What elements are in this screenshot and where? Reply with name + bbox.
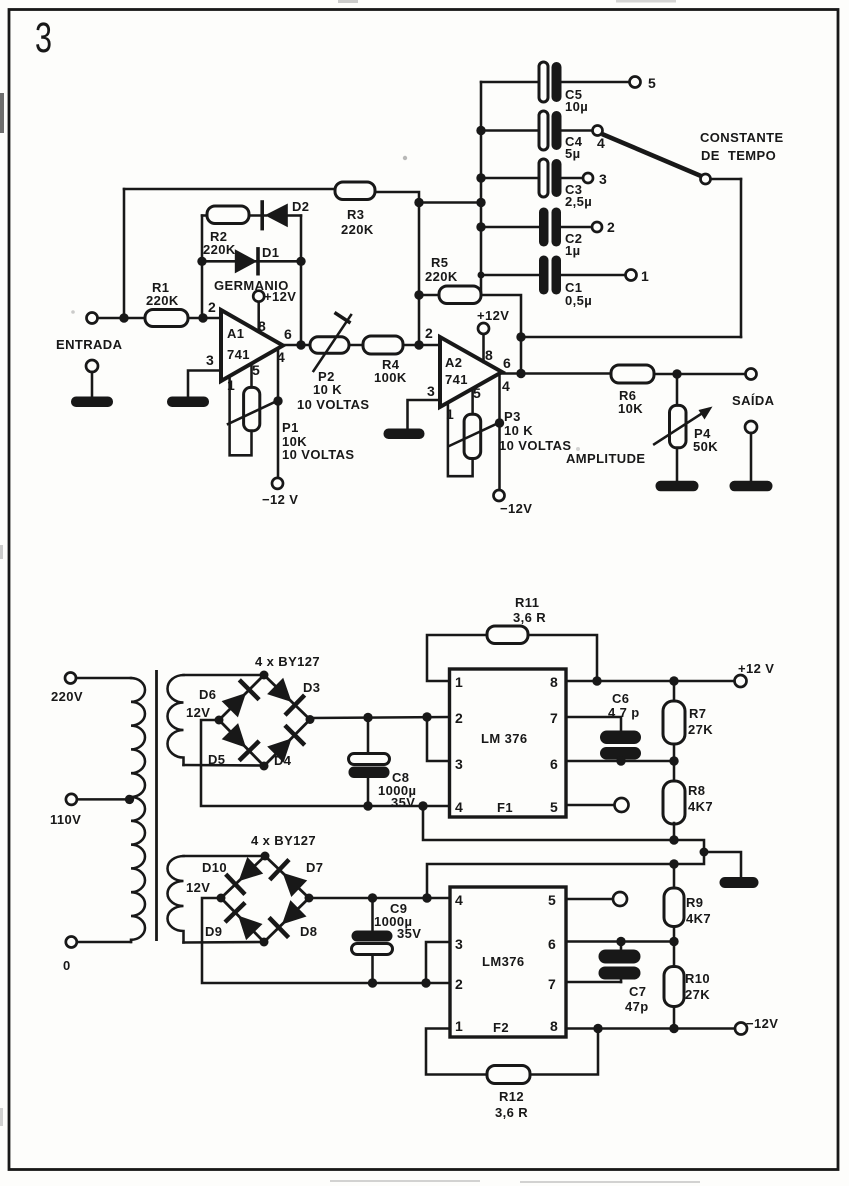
resistor R9 <box>673 864 676 889</box>
node C8 top <box>363 713 372 722</box>
wire R3 right jog <box>374 192 419 345</box>
wire R2 to D2 <box>249 214 266 217</box>
capacitor C2 <box>539 208 549 247</box>
node R11 pin8 <box>592 676 601 685</box>
svg-text:2: 2 <box>455 976 463 992</box>
wire bridge2 left to raw rail <box>202 898 450 983</box>
ground A1 <box>167 397 209 408</box>
wire A1 pin5 to P1 <box>250 364 253 388</box>
svg-text:27K: 27K <box>688 722 713 737</box>
wire D1 branch <box>202 260 301 263</box>
bridge 1 frame <box>219 675 310 766</box>
svg-text:4: 4 <box>597 135 605 151</box>
svg-text:2,5µ: 2,5µ <box>565 194 592 209</box>
svg-text:C6: C6 <box>612 691 629 706</box>
svg-text:7: 7 <box>548 976 556 992</box>
node primary tap <box>125 795 134 804</box>
bridge 2 frame <box>221 856 309 942</box>
wire jack stem <box>91 372 94 398</box>
svg-text:12V: 12V <box>186 705 210 720</box>
svg-text:10µ: 10µ <box>565 99 588 114</box>
svg-text:3: 3 <box>35 14 52 62</box>
wire P4 stem <box>676 374 679 406</box>
svg-text:220K: 220K <box>146 293 179 308</box>
resistor R8 <box>673 761 676 782</box>
svg-text:6: 6 <box>548 936 556 952</box>
wire C1 left <box>481 274 540 277</box>
terminal -12V <box>735 1023 747 1035</box>
node A1 pin2 <box>198 313 207 322</box>
svg-text:2: 2 <box>607 219 615 235</box>
node D1 right <box>296 257 305 266</box>
svg-text:D4: D4 <box>274 753 292 768</box>
svg-text:100K: 100K <box>374 370 407 385</box>
svg-text:0: 0 <box>63 958 71 973</box>
node C4 bus <box>476 126 485 135</box>
wire pin3 stub <box>426 942 450 983</box>
svg-text:12V: 12V <box>186 880 210 895</box>
svg-text:741: 741 <box>445 372 468 387</box>
svg-text:6: 6 <box>503 355 511 371</box>
wire A1 out to P2 <box>283 344 312 347</box>
svg-text:4 x BY127: 4 x BY127 <box>255 654 320 669</box>
node C7 top <box>616 937 625 946</box>
wire right block vertical <box>300 216 303 346</box>
wire C2 left <box>481 226 540 229</box>
svg-text:+12V: +12V <box>477 308 509 323</box>
wire F1 pin7 <box>566 717 621 732</box>
ground A2 <box>384 429 425 440</box>
diode D9 <box>238 916 262 941</box>
wire pin2 to pin3 <box>427 717 450 761</box>
wire F1 pin1 to R11 <box>427 635 488 681</box>
svg-text:7: 7 <box>550 710 558 726</box>
wire A1 pin3 <box>188 371 221 398</box>
node R5 left <box>414 290 423 299</box>
node bridge2 bottom <box>260 938 269 947</box>
svg-text:R12: R12 <box>499 1089 524 1104</box>
node R10 bottom <box>669 1024 678 1033</box>
node R7 R8 junction <box>669 756 678 765</box>
wire coil2 top to bridge <box>184 855 266 858</box>
svg-text:4 7 p: 4 7 p <box>608 705 640 720</box>
capacitor C1 <box>539 256 549 295</box>
node C3 bus <box>476 173 485 182</box>
wire bridge2 right rail <box>309 897 450 900</box>
wire F2 pin7 <box>566 981 621 984</box>
node P4 top <box>672 369 681 378</box>
ground saida jack <box>730 481 773 492</box>
svg-text:10 K: 10 K <box>504 423 533 438</box>
wire ground rail B <box>427 852 704 898</box>
svg-text:220K: 220K <box>425 269 458 284</box>
svg-text:R10: R10 <box>685 971 710 986</box>
svg-text:F2: F2 <box>493 1020 509 1035</box>
wire F1 pin6 <box>566 760 674 763</box>
svg-text:6: 6 <box>284 326 292 342</box>
capacitor C3 <box>539 159 548 197</box>
wire 220V to primary <box>76 677 131 680</box>
svg-text:D7: D7 <box>306 860 323 875</box>
svg-text:8: 8 <box>550 674 558 690</box>
capacitor C6 <box>600 731 641 745</box>
diode D7 <box>283 873 308 897</box>
svg-text:1µ: 1µ <box>565 243 581 258</box>
svg-text:47p: 47p <box>625 999 649 1014</box>
node bridge2 right <box>305 894 314 903</box>
resistor R11 <box>487 626 528 644</box>
wire -12V rail <box>566 1027 735 1030</box>
svg-text:D1: D1 <box>262 245 279 260</box>
svg-text:D9: D9 <box>205 924 222 939</box>
node A2 pin2 junction <box>414 340 423 349</box>
transformer core <box>155 670 158 941</box>
svg-text:SAÍDA: SAÍDA <box>732 393 775 408</box>
potentiometer P3 <box>464 414 481 458</box>
node bridge2 top <box>261 852 270 861</box>
svg-text:D10: D10 <box>202 860 227 875</box>
terminal 110V <box>66 794 77 805</box>
node A1 output <box>296 340 305 349</box>
wire 110V tap <box>77 798 129 801</box>
node D1 left <box>197 257 206 266</box>
terminal F1 pin5 <box>615 798 629 812</box>
svg-text:3,6 R: 3,6 R <box>513 610 546 625</box>
capacitor C9 <box>371 898 374 931</box>
terminal F2 pin5 <box>613 892 627 906</box>
+12V terminal A2 <box>478 323 489 334</box>
wire input to R1 <box>98 317 146 320</box>
capacitor C7 <box>620 942 623 951</box>
svg-text:50K: 50K <box>693 439 718 454</box>
resistor R5 <box>439 286 481 304</box>
wire A1 pin1 to P1 <box>230 376 252 455</box>
svg-text:4 x BY127: 4 x BY127 <box>251 833 316 848</box>
svg-text:D3: D3 <box>303 680 320 695</box>
node bridge2 left <box>217 894 226 903</box>
svg-text:3,6 R: 3,6 R <box>495 1105 528 1120</box>
transformer primary winding <box>131 678 145 942</box>
resistor R12 <box>487 1066 530 1084</box>
ground input jack <box>71 397 113 408</box>
svg-text:10K: 10K <box>618 401 643 416</box>
svg-text:5: 5 <box>252 362 260 378</box>
input jack terminal <box>86 360 98 372</box>
wire F1 pin5 <box>566 804 615 807</box>
wire bridge1 left to ground rail <box>201 720 450 806</box>
op-amp A1 <box>221 310 283 381</box>
svg-text:+12 V: +12 V <box>738 661 774 676</box>
svg-text:4: 4 <box>455 892 463 908</box>
terminal 220V <box>65 673 76 684</box>
wire F2 pin1 to R12 <box>426 1029 488 1075</box>
svg-text:P3: P3 <box>504 409 521 424</box>
svg-text:D5: D5 <box>208 752 225 767</box>
capacitor C4 <box>539 111 548 150</box>
scan specks <box>0 93 4 133</box>
svg-text:R11: R11 <box>515 595 539 610</box>
potentiometer P1 <box>244 387 260 430</box>
capacitor C5 <box>539 62 548 102</box>
resistor R6 <box>611 365 654 383</box>
svg-text:6: 6 <box>550 756 558 772</box>
svg-text:DE TEMPO: DE TEMPO <box>701 148 776 163</box>
wire +12V rail <box>566 680 735 683</box>
svg-text:5: 5 <box>548 892 556 908</box>
svg-text:D8: D8 <box>300 924 317 939</box>
wire switch return horizontal <box>521 336 741 339</box>
wire feedback top to R3 <box>124 188 336 191</box>
svg-text:4: 4 <box>455 799 463 815</box>
svg-text:3: 3 <box>455 756 463 772</box>
node R9 R10 junction <box>669 937 678 946</box>
svg-text:1: 1 <box>227 377 235 393</box>
svg-text:0,5µ: 0,5µ <box>565 293 592 308</box>
svg-text:220V: 220V <box>51 689 83 704</box>
svg-text:−12V: −12V <box>500 501 532 516</box>
resistor R10 <box>673 942 676 968</box>
wire R2 lead left <box>202 214 208 217</box>
wire C4 left <box>481 129 540 132</box>
wire coil1 top to bridge <box>184 674 265 677</box>
wire saida jack stem <box>750 433 753 481</box>
diode D6 <box>222 693 246 717</box>
svg-text:5: 5 <box>473 385 481 401</box>
svg-text:27K: 27K <box>685 987 710 1002</box>
node F1 ground rail <box>418 801 427 810</box>
node C2 bus <box>476 222 485 231</box>
svg-text:R3: R3 <box>347 207 364 222</box>
svg-text:35V: 35V <box>391 795 415 810</box>
svg-text:2: 2 <box>425 325 433 341</box>
IC F1 LM376 <box>450 669 567 817</box>
svg-text:10 VOLTAS: 10 VOLTAS <box>499 438 571 453</box>
wire R6 to saida <box>654 373 746 376</box>
ground symbol mid <box>720 877 759 888</box>
wire F2 pin5 <box>566 898 613 901</box>
-12V terminal A2 <box>494 490 505 501</box>
wire switch stub <box>710 178 741 181</box>
svg-text:3: 3 <box>599 171 607 187</box>
svg-text:D6: D6 <box>199 687 216 702</box>
svg-text:A2: A2 <box>445 355 462 370</box>
wire R12 right <box>530 1029 598 1075</box>
svg-text:C7: C7 <box>629 984 646 999</box>
wire ground stub <box>704 852 741 878</box>
wire coil1 bottom to bridge <box>184 764 265 767</box>
diode D5 <box>222 723 246 748</box>
svg-text:R7: R7 <box>689 706 706 721</box>
resistor R7 <box>673 681 676 702</box>
node C1 bus <box>478 272 485 279</box>
node R9 top <box>669 859 678 868</box>
wire R5 right to output line <box>481 295 521 374</box>
wire cap bus <box>480 82 483 295</box>
svg-text:10 VOLTAS: 10 VOLTAS <box>282 447 354 462</box>
node input junction <box>119 313 128 322</box>
diode D8 <box>282 900 307 924</box>
wire R4 to A2 pin2 <box>403 344 440 347</box>
svg-text:5: 5 <box>550 799 558 815</box>
svg-text:3: 3 <box>455 936 463 952</box>
wire C5 left <box>481 81 540 84</box>
node R7 top <box>669 676 678 685</box>
node bridge1 bottom <box>260 762 269 771</box>
wire node to cap bus <box>419 201 481 204</box>
svg-text:2: 2 <box>208 299 216 315</box>
svg-text:−12V: −12V <box>746 1016 778 1031</box>
svg-text:4: 4 <box>502 378 510 394</box>
svg-text:R5: R5 <box>431 255 448 270</box>
input terminal <box>87 313 98 324</box>
resistor R4 <box>363 336 403 354</box>
wire 0 to primary <box>77 941 131 944</box>
svg-text:ENTRADA: ENTRADA <box>56 337 123 352</box>
svg-text:LM 376: LM 376 <box>481 731 527 746</box>
svg-text:220K: 220K <box>203 242 236 257</box>
node bus incoming <box>476 198 485 207</box>
node F2 pin3 junction <box>421 978 430 987</box>
wire coil2 bottom to bridge <box>184 941 265 944</box>
diode D1 <box>235 249 257 273</box>
wire D2 to right vertical <box>288 214 301 217</box>
resistor R1 <box>145 310 188 327</box>
transformer secondary 1 <box>168 675 184 765</box>
diode D2 <box>265 204 288 228</box>
saida jack terminal <box>745 421 757 433</box>
wire switch return vertical <box>740 179 743 337</box>
wire A2 pin5 to P3 <box>471 389 474 415</box>
node bridge1 right <box>306 715 315 724</box>
-12V terminal A1 <box>272 478 283 489</box>
svg-text:10 VOLTAS: 10 VOLTAS <box>297 397 369 412</box>
svg-text:3: 3 <box>427 383 435 399</box>
wire A2 pin3 <box>408 400 441 429</box>
resistor R3 <box>335 182 375 200</box>
node ground junction <box>700 848 709 857</box>
saida terminal <box>746 369 757 380</box>
svg-text:+12V: +12V <box>264 289 296 304</box>
wire C3 left <box>481 177 540 180</box>
diode D3 <box>267 678 292 702</box>
diode D10 <box>239 857 264 881</box>
svg-text:4K7: 4K7 <box>686 911 711 926</box>
svg-text:3: 3 <box>206 352 214 368</box>
svg-text:5µ: 5µ <box>565 146 581 161</box>
svg-text:1: 1 <box>455 1018 463 1034</box>
svg-text:220K: 220K <box>341 222 374 237</box>
node bridge1 left <box>215 716 224 725</box>
svg-text:−12 V: −12 V <box>262 492 298 507</box>
node F1 pin2 <box>422 712 431 721</box>
svg-text:1: 1 <box>455 674 463 690</box>
wire A1 pin4 to -12V <box>277 349 280 479</box>
diode D4 <box>267 738 291 762</box>
wire ground rail A <box>423 806 704 852</box>
svg-text:8: 8 <box>485 347 493 363</box>
op-amp A2 <box>440 337 502 407</box>
svg-text:1: 1 <box>641 268 649 284</box>
switch arm <box>602 134 701 176</box>
svg-text:110V: 110V <box>50 812 81 827</box>
wire bridge1 right rail <box>310 717 450 718</box>
terminal +12V <box>735 675 747 687</box>
svg-text:5: 5 <box>648 75 656 91</box>
node F2 pin4 <box>422 893 431 902</box>
svg-text:R8: R8 <box>688 783 705 798</box>
resistor R2 <box>207 206 249 224</box>
svg-text:741: 741 <box>227 347 250 362</box>
svg-text:35V: 35V <box>397 926 421 941</box>
svg-text:CONSTANTE: CONSTANTE <box>700 130 784 145</box>
+12V terminal A1 <box>253 291 264 302</box>
wire A2 pin1 to P3 <box>448 403 473 477</box>
potentiometer P2 <box>310 337 349 354</box>
wire left block vertical <box>201 216 204 319</box>
ground P4 <box>656 481 699 492</box>
node R3-bus junction <box>414 198 423 207</box>
capacitor C8 <box>367 718 370 755</box>
svg-text:8: 8 <box>550 1018 558 1034</box>
wire F2 pin6 <box>566 940 674 943</box>
transformer secondary 2 <box>168 856 184 943</box>
svg-text:A1: A1 <box>227 326 244 341</box>
wire R5 left lead <box>419 294 440 297</box>
svg-text:LM376: LM376 <box>482 954 524 969</box>
svg-text:AMPLITUDE: AMPLITUDE <box>566 451 645 466</box>
node bridge1 top <box>260 671 269 680</box>
IC F2 LM376 <box>450 887 566 1037</box>
svg-text:R9: R9 <box>686 895 703 910</box>
svg-text:D2: D2 <box>292 199 309 214</box>
svg-text:4K7: 4K7 <box>688 799 713 814</box>
wire A2 out to R6 <box>502 372 612 375</box>
node R12 pin8 <box>593 1024 602 1033</box>
node A2 output <box>516 369 525 378</box>
wire feedback vertical <box>123 189 126 318</box>
node C9 top <box>368 893 377 902</box>
wire P4 to ground <box>676 448 679 481</box>
svg-text:P1: P1 <box>282 420 299 435</box>
svg-text:2: 2 <box>455 710 463 726</box>
wire R11 right <box>528 635 597 681</box>
potentiometer P4 <box>670 405 687 447</box>
wire R1 to pin2 <box>188 317 221 320</box>
terminal 0 <box>66 937 77 948</box>
wire P2 to R4 <box>349 344 364 347</box>
wire A2 pin4 to -12V <box>498 374 501 490</box>
node R8 bottom <box>669 835 678 844</box>
svg-text:10 K: 10 K <box>313 382 342 397</box>
node switch return <box>516 332 525 341</box>
svg-text:F1: F1 <box>497 800 513 815</box>
node C6 bottom <box>616 756 625 765</box>
